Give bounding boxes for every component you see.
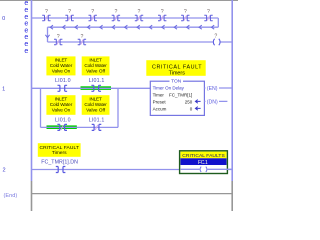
svg-text:2: 2: [2, 168, 5, 174]
wire over green (row2): [47, 126, 77, 128]
svg-text:?: ?: [114, 9, 117, 15]
svg-text:Valve On: Valve On: [52, 107, 71, 112]
svg-text:?: ?: [161, 9, 164, 15]
DN label: [205, 98, 219, 105]
svg-text:INLET: INLET: [89, 58, 102, 63]
svg-text:1: 1: [2, 86, 5, 92]
XIO contact 3 rung0: [89, 15, 97, 21]
svg-text:LI01.1: LI01.1: [89, 117, 105, 123]
svg-text:(End): (End): [4, 193, 18, 199]
XIO contact 6 rung0: [158, 15, 166, 21]
edit-zone e marks column: [24, 0, 28, 55]
green power highlight through XIO LI01.0 (row2): [47, 125, 77, 129]
right power rail (gray end-zone): [231, 181, 233, 211]
svg-text:?: ?: [45, 9, 48, 15]
EN output wire: [204, 87, 232, 89]
svg-text:Valve Off: Valve Off: [86, 68, 106, 73]
svg-text:Accum: Accum: [153, 107, 167, 112]
svg-text:(DN): (DN): [207, 100, 218, 106]
description box INLET Cold Water Valve On (top): [46, 56, 75, 75]
svg-text:INLET: INLET: [55, 58, 68, 63]
svg-text:?: ?: [57, 34, 60, 40]
svg-text:Timers: Timers: [169, 71, 186, 77]
svg-text:?: ?: [80, 34, 83, 40]
svg-text:Timers: Timers: [52, 150, 67, 156]
branch close vertical: [117, 88, 119, 127]
rung 2 wire: [32, 169, 233, 171]
svg-text:TON: TON: [171, 78, 182, 84]
description box INLET Cold Water Valve On (bottom): [46, 95, 75, 115]
description box CRITICAL FAULT Timers (rung1): [146, 60, 205, 76]
svg-text:FC_TMR[1].DN: FC_TMR[1].DN: [41, 159, 78, 165]
description box INLET Cold Water Valve Off (top): [82, 56, 110, 75]
svg-text:Cold Water: Cold Water: [50, 102, 73, 107]
XIC contact LI01.0 (row1): [58, 85, 68, 91]
svg-text:Timer: Timer: [153, 93, 165, 98]
rung 0 wrap-down wire left: [47, 27, 49, 42]
XIO contact 9 rung0: [54, 39, 62, 45]
rung 1 main wire: [32, 87, 151, 89]
end rung wire (gray): [32, 193, 233, 195]
wire over green (row1): [81, 87, 112, 89]
svg-text:Cold Water: Cold Water: [50, 63, 73, 68]
right power rail (blue): [231, 0, 233, 181]
svg-text:Preset: Preset: [153, 100, 167, 105]
description box INLET Cold Water Valve Off (bottom): [82, 95, 110, 115]
svg-text:CRITICAL FAULT: CRITICAL FAULT: [152, 64, 202, 70]
rung 0 row-1 wire: [32, 17, 219, 19]
svg-text:INLET: INLET: [89, 97, 102, 102]
svg-text:LI01.0: LI01.0: [55, 78, 71, 84]
svg-text:FC_TMR[1]: FC_TMR[1]: [169, 93, 192, 98]
XIO contact 5 rung0: [135, 15, 143, 21]
svg-text:e: e: [24, 48, 28, 55]
green power highlight through XIC LI01.1: [81, 86, 112, 90]
svg-text:?: ?: [68, 9, 71, 15]
OTE coil FC.1: [200, 166, 208, 172]
XIO contact 2 rung0: [65, 15, 73, 21]
svg-text:Timer On Delay: Timer On Delay: [153, 86, 185, 91]
XIO contact 7 rung0: [181, 15, 189, 21]
preset value arrow: [195, 100, 200, 104]
XIO contact LI01.0 (row2): [57, 124, 67, 130]
left power rail (gray end-zone): [31, 181, 33, 211]
svg-text:CRITICAL FAULT: CRITICAL FAULT: [39, 145, 78, 151]
description box CRITICAL FAULT Timers (rung2): [38, 143, 81, 157]
svg-text:Cold Water: Cold Water: [84, 63, 107, 68]
svg-text:250: 250: [185, 100, 193, 105]
output coil OTE rung0: [213, 39, 221, 46]
svg-text:INLET: INLET: [55, 97, 68, 102]
svg-text:FC.1: FC.1: [198, 160, 208, 166]
svg-text:Valve On: Valve On: [52, 68, 71, 73]
DN output wire: [204, 100, 227, 102]
svg-text:Valve Off: Valve Off: [86, 107, 106, 112]
svg-text:Cold Water: Cold Water: [84, 102, 107, 107]
left power rail (blue): [31, 0, 33, 181]
XIO contact LI01.1 (row2): [92, 124, 102, 130]
accum value arrow: [195, 107, 200, 111]
branch bottom wire: [41, 126, 119, 128]
svg-text:0: 0: [2, 16, 5, 22]
rung 0 row-3 wire: [48, 41, 233, 43]
top border line: [0, 0, 238, 2]
OTE output box CRITICAL FAULTS FC.1: [180, 151, 228, 174]
svg-text:LI01.0: LI01.0: [55, 117, 71, 123]
rung 0 wrap return wire: [48, 26, 219, 28]
wrap arrows: [50, 25, 214, 29]
XIO contact 4 rung0: [112, 15, 120, 21]
XIO contact 1 rung0: [42, 15, 50, 21]
svg-text:?: ?: [207, 9, 210, 15]
branch open vertical: [40, 88, 42, 127]
wire through OTE coil area: [181, 168, 233, 170]
XIO contact 10 rung0: [78, 39, 86, 45]
EN label: [205, 85, 219, 92]
XIO contact 8 rung0: [204, 15, 212, 21]
svg-text:(EN): (EN): [207, 86, 218, 92]
svg-text:?: ?: [91, 9, 94, 15]
wrap down arrow: [45, 35, 49, 38]
svg-text:?: ?: [184, 9, 187, 15]
svg-text:?: ?: [138, 9, 141, 15]
XIC contact LI01.1 (row1): [91, 85, 101, 91]
svg-text:LI01.1: LI01.1: [89, 78, 105, 84]
XIC contact FC_TMR[1].DN: [56, 167, 66, 173]
rung 0 wrap-down wire right: [217, 18, 219, 27]
TON timer box: [150, 78, 204, 115]
